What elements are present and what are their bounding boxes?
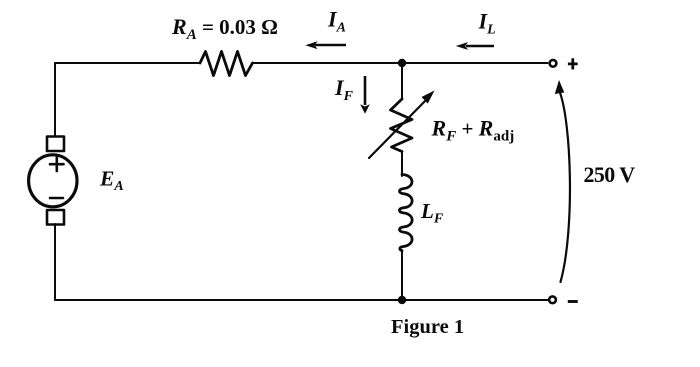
minus sign at bottom terminal (568, 300, 578, 303)
minus sign inside machine (50, 197, 63, 200)
junction node bottom (398, 296, 406, 304)
wire top-left horizontal (55, 62, 200, 64)
junction node top (398, 59, 406, 67)
dc machine brush bottom (47, 210, 64, 225)
inductor LF coils (399, 175, 412, 251)
resistor RF+Radj zigzag (391, 99, 413, 152)
250V arc arrow head (555, 80, 565, 94)
current arrow IF (364, 76, 367, 105)
wire field branch upper (401, 63, 403, 99)
wire left vertical lower (54, 224, 56, 300)
wire field branch lower (401, 250, 403, 300)
dc machine brush top (47, 137, 64, 152)
current arrow IA (315, 44, 346, 47)
wire left vertical upper (54, 63, 56, 136)
terminal bottom-right (549, 296, 556, 303)
dc machine armature circle EA (29, 155, 77, 207)
resistor RA zigzag (200, 52, 253, 76)
terminal top-right (550, 60, 557, 67)
wire bottom horizontal (55, 299, 548, 301)
wire top-right horizontal (253, 62, 548, 64)
svg-text:Figure 1: Figure 1 (391, 316, 464, 338)
rheostat arrow shaft (369, 98, 428, 158)
plus sign at top terminal (568, 58, 578, 69)
wire field branch middle (401, 152, 403, 177)
current arrow IL (466, 45, 494, 48)
plus sign inside machine (50, 158, 64, 172)
rheostat arrow head (422, 91, 435, 104)
250V arc arrow curve (559, 90, 570, 282)
svg-text:250 V: 250 V (584, 162, 636, 187)
